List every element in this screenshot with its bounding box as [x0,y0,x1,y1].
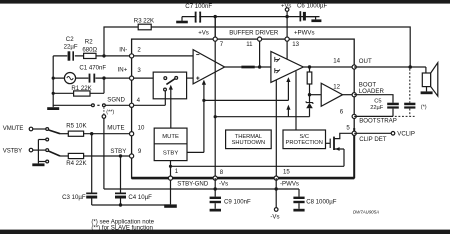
wire pin5 to VCLIP [354,132,391,134]
wire R1 row [53,78,104,93]
pin 1 [168,176,172,180]
pin 3 [130,76,134,80]
resistor internal (bootstrap divider) [309,67,311,95]
wire -Vs bottom bus [104,188,299,190]
svg-text:SHUTDOWN: SHUTDOWN [232,140,266,146]
wire pin15 column [275,80,277,178]
resistor R2 [84,53,96,58]
svg-text:S/C: S/C [299,134,308,140]
svg-text:MUTE: MUTE [107,125,124,132]
wire pin1 to ground [170,178,172,204]
svg-text:VSTBY: VSTBY [3,149,22,155]
svg-text:R5 10K: R5 10K [66,122,86,129]
svg-text:22µF: 22µF [64,44,78,51]
svg-text:C4 10µF: C4 10µF [128,194,152,201]
wire VMUTE to switch [33,128,46,130]
wire op1 output to power amp [225,66,271,68]
capacitor C7 [195,12,197,23]
junction IN-/R3 [102,54,105,57]
capacitor C1 [89,74,91,83]
svg-text:14: 14 [333,58,340,65]
wire input left rail [53,56,91,105]
junction left rail / R1 [52,92,55,95]
svg-text:+PWVs: +PWVs [294,29,315,36]
wire optional slave stub (**) [103,107,105,114]
resistor internal (thick bar on buffer output) [241,66,254,69]
svg-text:DW7AU905A: DW7AU905A [353,210,379,215]
wire sw2 lower contact to gnd rail [38,161,45,163]
wire pin13 internal to amp [286,39,288,59]
switch SW2 (stby) [46,149,49,152]
resistor R3 [138,24,151,30]
svg-text:C9 100nF: C9 100nF [224,198,251,205]
junction amp output / internal resistor [308,65,311,68]
signal source [64,73,75,84]
svg-text:R4 22K: R4 22K [66,160,86,167]
svg-text:7: 7 [220,41,224,48]
svg-text:+Vs: +Vs [198,29,209,36]
svg-text:1: 1 [175,168,179,175]
svg-text:-PWVs: -PWVs [280,180,299,187]
wire sw1 pole to R5 [60,133,68,135]
svg-text:BUFFER DRIVER: BUFFER DRIVER [229,29,279,36]
junction IN+/R1 [102,76,105,79]
IC box [132,39,355,178]
wire SGND to pin 4 [105,104,131,106]
pin 15 [274,176,278,180]
svg-text:C2: C2 [66,36,74,43]
wire power amp to S/C box [295,71,297,130]
wire block to pin 1 [170,161,172,179]
wire pin11 internal [259,39,261,67]
svg-text:STBY: STBY [163,150,178,156]
svg-text:MUTE: MUTE [162,134,179,140]
capacitor C2 [68,51,71,60]
node VMUTE terminal [29,127,33,131]
svg-text:-Vs: -Vs [219,180,228,187]
wire pin15 to -Vs terminal [275,178,277,208]
svg-text:IN-: IN- [119,47,127,54]
wire pin6 bootstrap row [354,115,393,117]
IC bottom edge thick [132,177,355,180]
MUTE/STBY block [154,128,187,161]
wire pin7 internal supply column [214,17,216,179]
node SGND gap circles [92,104,95,107]
transistor Q1 (clip detect mosfet) [326,142,331,144]
op-amp U1 input buffer [193,50,225,84]
current source arrow to L1 [287,109,289,116]
svg-text:C8 1000µF: C8 1000µF [306,198,337,205]
wire op1 bias arrow from mute block [187,84,204,152]
wire feedback line R3 (IN- to OUT) [104,27,410,67]
wire pin2 to op-amp inv input [132,55,194,57]
wire sw1 lower contact to gnd rail [38,139,45,141]
svg-text:12: 12 [333,84,340,91]
wire slave link to -Vs line [103,118,105,189]
junction pin7 column / L2 [214,115,217,118]
capacitor C8 [293,197,304,199]
wire pin3 to SVR switch [132,77,154,79]
svg-text:PROTECTION: PROTECTION [286,140,323,146]
pin 14 [352,65,356,69]
wire SVR control from MUTE/STBY block (arrow) [170,89,172,128]
ground (C6) [306,17,316,20]
switch SVR contacts [164,77,167,80]
svg-text:15: 15 [283,169,290,176]
resistor R5 [68,131,83,136]
wire sw2 pole to R4 [60,155,68,157]
wire VSTBY to switch [33,149,46,151]
svg-text:STBY-GND: STBY-GND [177,180,209,187]
ground (C9) [214,203,216,209]
box THERMAL SHUTDOWN [226,130,272,149]
wire amp output row [303,66,354,68]
node VSTBY terminal [29,148,33,152]
wire R4 to pin 9 [84,155,132,157]
wire C3/C4 ground bus [92,204,171,206]
pin 9 [130,154,134,158]
resistor R4 [68,153,83,158]
svg-text:IN+: IN+ [118,67,128,74]
capacitor C5 [387,103,399,106]
wire IN+ row [53,77,131,79]
svg-text:VCLIP: VCLIP [397,131,415,138]
svg-text:680Ω: 680Ω [82,47,97,54]
ground (C7) [181,17,183,21]
svg-text:13: 13 [292,41,299,48]
wire driver to pin 12 [343,94,355,96]
svg-text:11: 11 [246,41,253,48]
capacitor C9 [210,197,221,199]
wire R5 to pin 10 [84,133,132,135]
junction pin15 / bus [275,187,278,190]
wire sgnd riser inside box [164,91,166,105]
svg-text:C6 1000µF: C6 1000µF [297,3,328,10]
node -Vs terminal [274,208,278,212]
svg-text:22µF: 22µF [370,105,384,111]
wire OUT row [354,66,426,68]
op-amp U2 power stage [271,52,303,83]
pin 13 [285,37,289,41]
wire rail to pin 7 (over triangle) [214,17,216,39]
switch SW1 (mute) [46,128,49,131]
ground (STBY-GND) [164,204,177,207]
pin 6 [352,114,356,118]
junction pin11 / amp input [258,65,261,68]
wire C5 to bootstrap [392,109,394,117]
svg-text:+Vs: +Vs [281,4,291,10]
svg-text:CLIP DET: CLIP DET [359,136,387,143]
ground (C8) [298,203,300,209]
svg-text:(*): (*) [421,104,427,110]
wire bus to C8 [298,189,300,197]
pin 12 [352,93,356,97]
current source glyphs inside power amp [275,57,280,62]
wire pin4 SGND to switch lower contact [132,104,166,106]
bottom border band [0,230,450,234]
junction +Vs/pin13 on rail [285,15,288,18]
ground (input) [52,105,54,107]
svg-text:BOOTSTRAP: BOOTSTRAP [359,118,397,125]
pin 2 [130,54,134,58]
wire pin8 to C9 [214,178,216,197]
wire internal -Vs rail [171,165,345,167]
capacitor C6 [300,11,302,21]
svg-text:10: 10 [138,125,145,132]
ground (switches) [32,163,44,166]
svg-text:C5: C5 [374,98,381,104]
junction block / -Vs internal rail [169,165,172,168]
wire switch ground rail [37,140,39,164]
wire C3 riser [91,134,93,205]
pin 10 [130,132,134,136]
svg-text:-Vs: -Vs [270,213,279,220]
junction STBY/C4 [119,154,122,157]
svg-text:R3 22K: R3 22K [134,18,154,25]
junction C4/gnd bus [119,203,122,206]
pin 5 [352,131,356,135]
pin 8 [213,176,217,180]
node +Vs terminal [285,8,289,12]
junction pin8 / bus [214,187,217,190]
resistor R1 [74,91,90,96]
junction resistor / zener / driver [308,93,311,96]
wire power amp bias arrow [287,82,289,101]
wire C4 riser [120,156,122,205]
svg-text:STBY: STBY [110,148,126,155]
node VCLIP terminal [391,132,395,136]
junction left rail / source [52,77,55,80]
wire internal bias line L1 [204,99,289,101]
pin 11 [258,37,262,41]
diode zener [309,95,311,103]
svg-text:(**): (**) [106,110,114,116]
svg-text:C7 100nF: C7 100nF [185,3,212,10]
wire rail to pin 13 [286,17,288,39]
wire +Vs rail [182,16,320,18]
wire pin12 to C5 [354,95,393,103]
svg-text:(**) for SLAVE function: (**) for SLAVE function [91,224,153,231]
junction C7/pin7 on rail [214,15,217,18]
svg-text:C1 470nF: C1 470nF [79,65,106,72]
top border band [0,0,450,4]
svg-text:R2: R2 [85,38,93,45]
wire IN- row [53,55,131,57]
op-amp U3 boot loader driver [310,94,322,96]
svg-text:VMUTE: VMUTE [3,126,24,132]
junction op1 bias / L1 [202,99,205,102]
svg-text:SGND: SGND [107,97,125,104]
capacitor C4 [115,193,126,195]
junction OUT / feedback / bootstrap option [408,65,412,69]
svg-text:THERMAL: THERMAL [235,134,262,140]
SVR switch box [153,72,186,99]
svg-text:C3 10µF: C3 10µF [62,194,86,201]
pin 4 [130,103,134,107]
wire SVR switch pole to op-amp non-inv input [178,77,194,79]
pin 7 [213,37,217,41]
junction MUTE/C3 [90,132,93,135]
svg-text:OUT: OUT [359,58,372,65]
capacitor C3 [86,193,97,195]
ground (speaker) [426,87,428,92]
box S/C PROTECTION [283,130,326,149]
wire internal rail L2 [215,116,309,118]
speaker [425,67,427,73]
capacitor optional (*) dashed from OUT [409,69,411,103]
svg-text:R1 22K: R1 22K [71,85,91,92]
